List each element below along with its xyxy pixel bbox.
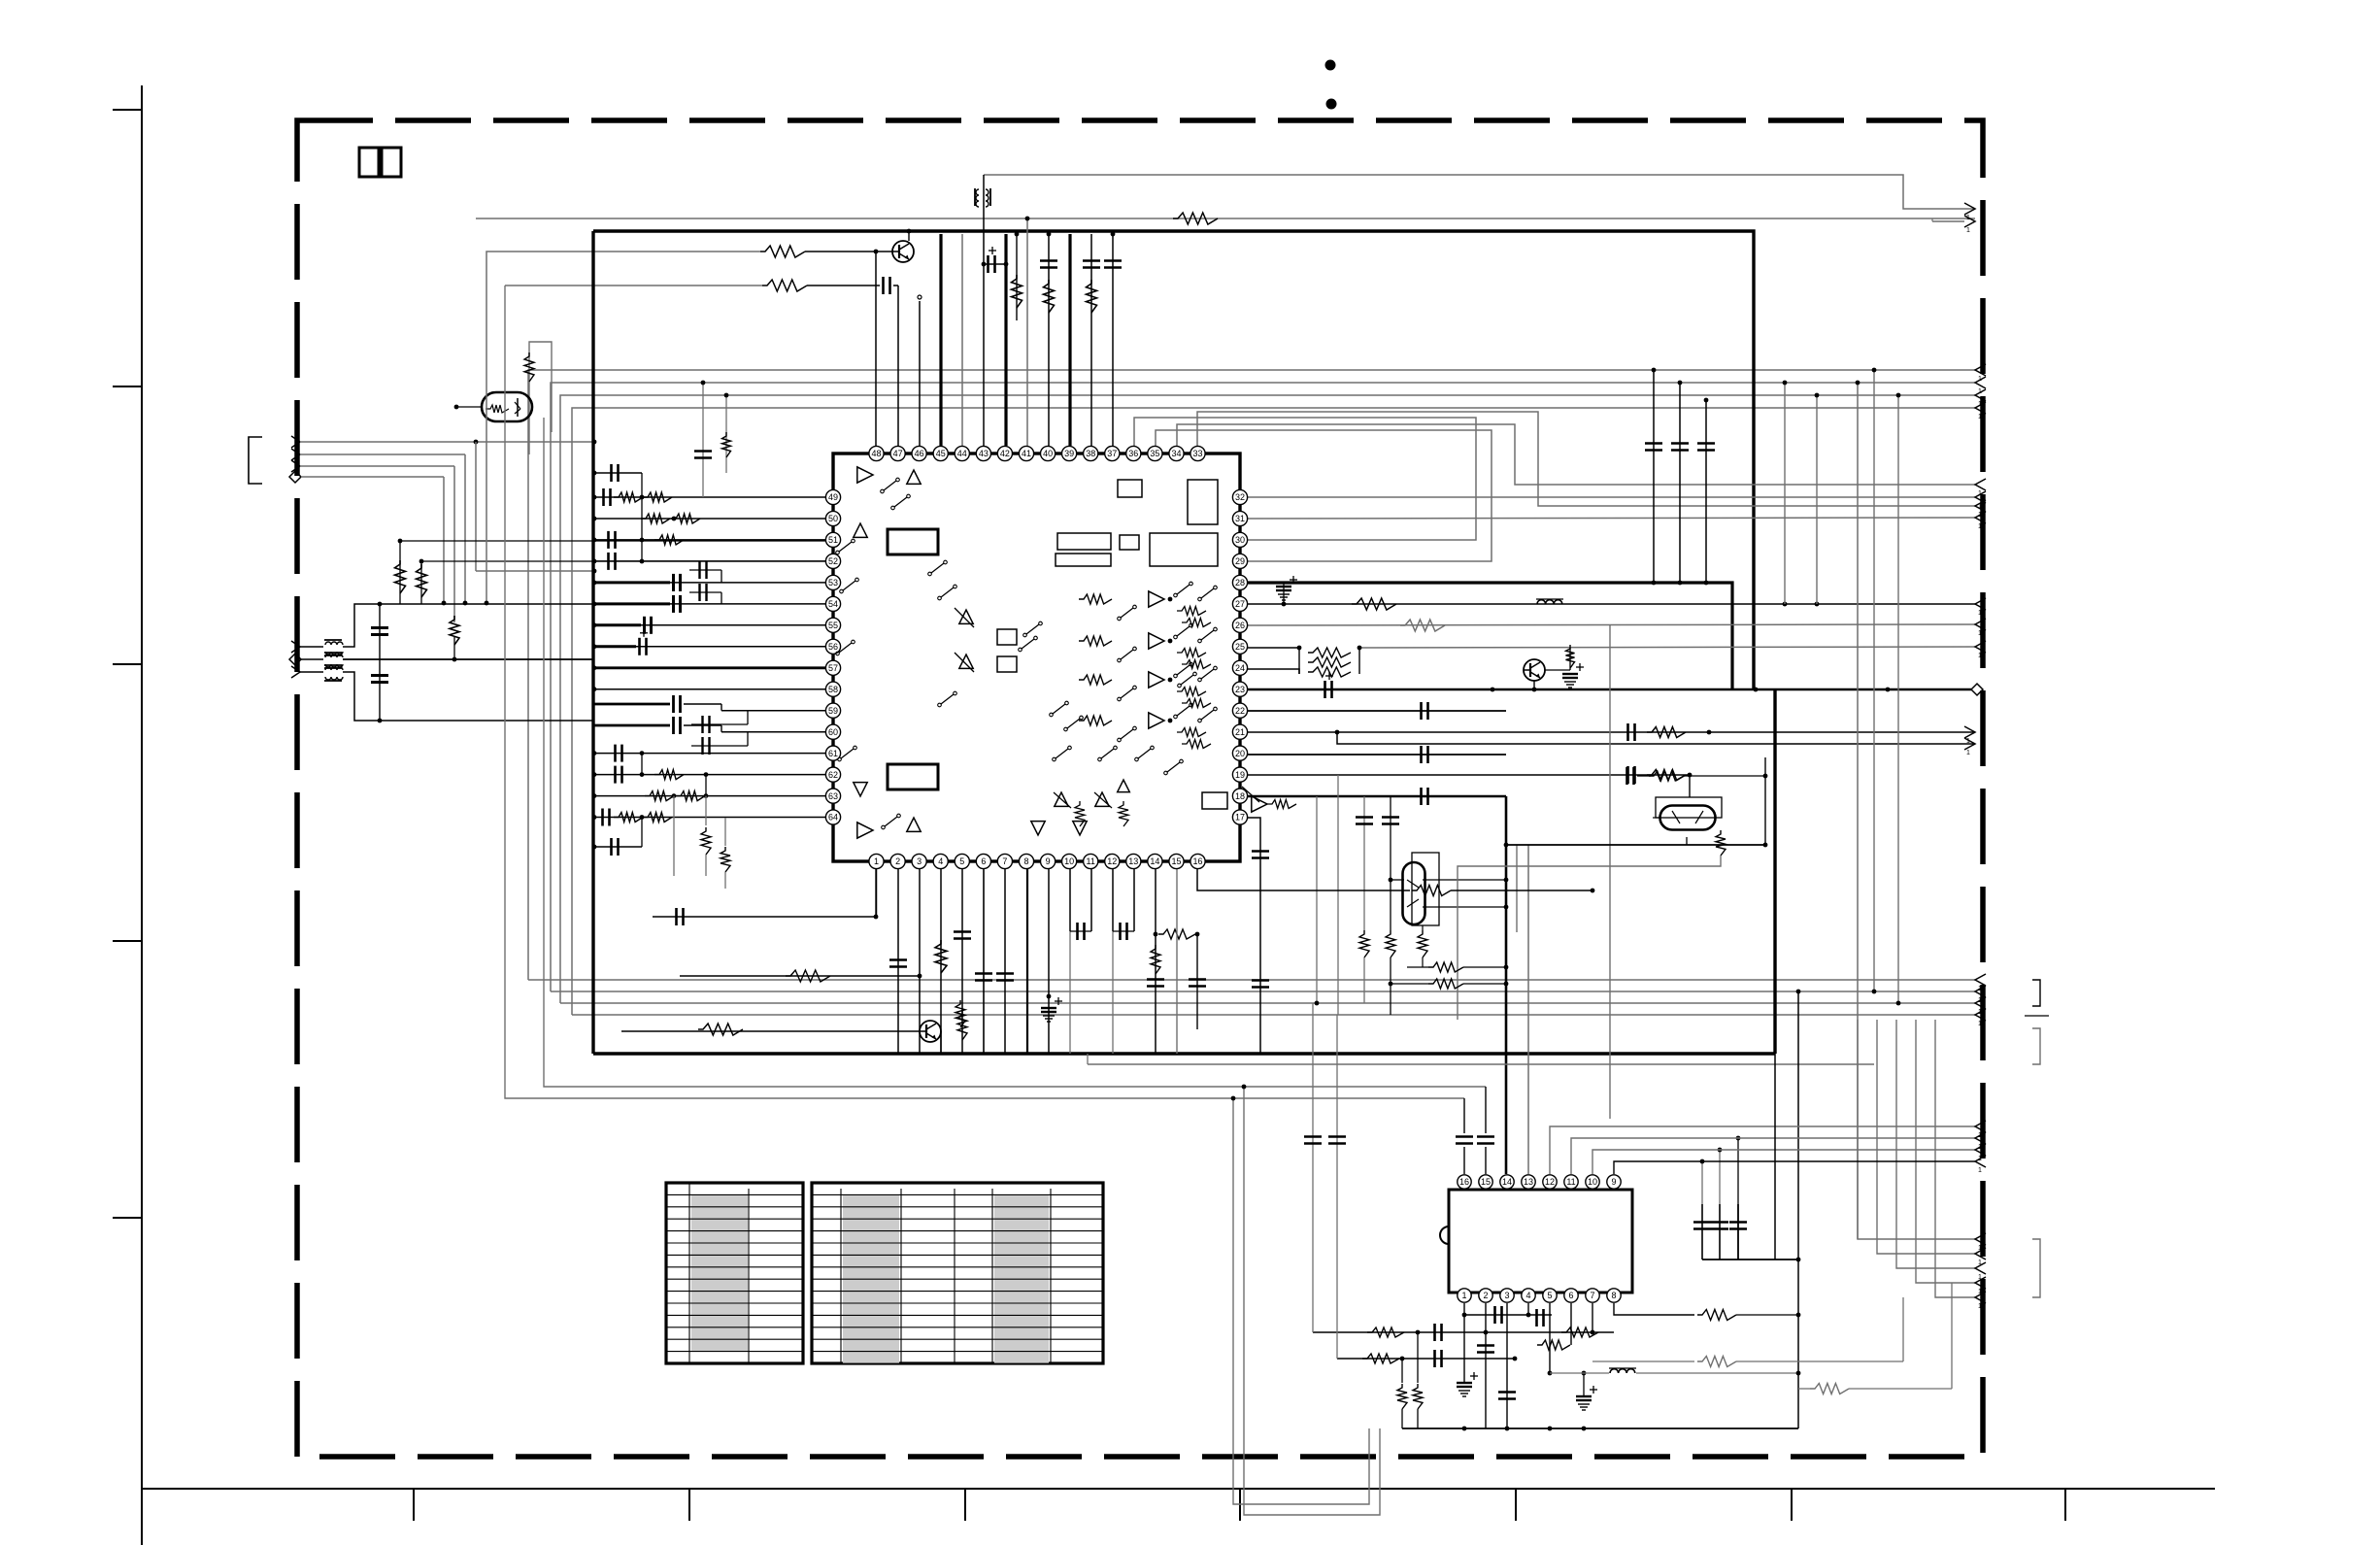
- svg-text:49: 49: [828, 492, 838, 502]
- resistor R-b5: [957, 1011, 967, 1040]
- adjustment table 1: [666, 1183, 803, 1363]
- wire stub pin56: [594, 646, 825, 648]
- capacitor C-b15: [1189, 978, 1206, 981]
- U1 vca pair 2: [959, 655, 973, 668]
- wire pin47 up: [897, 285, 899, 446]
- svg-text:13: 13: [1524, 1177, 1533, 1187]
- wire stub59 thick: [594, 703, 670, 706]
- capacitor C-in1: [379, 604, 381, 721]
- resistor R-u2j: [1561, 1327, 1598, 1337]
- wire u2 pin2 down: [1485, 1303, 1487, 1428]
- wire pin51 ext: [400, 540, 833, 542]
- svg-text:37: 37: [1107, 449, 1117, 458]
- wire pin20 out: [1248, 754, 1506, 756]
- wire u2 pin11 up: [1571, 1138, 1975, 1174]
- capacitor C-el-s56: [594, 645, 636, 648]
- svg-text:1: 1: [874, 856, 879, 866]
- svg-text:38: 38: [1086, 449, 1095, 458]
- capacitor C-s53b: [698, 561, 700, 579]
- U1 internal small box b: [997, 656, 1017, 672]
- svg-text:9: 9: [1046, 856, 1051, 866]
- wire pin35 nest: [1156, 430, 1492, 561]
- svg-text:52: 52: [828, 556, 838, 566]
- resistor R-u2b: [1362, 1354, 1399, 1363]
- connector J-left-1 chevrons: [291, 436, 300, 448]
- resistor R-s50a: [641, 514, 670, 523]
- svg-text:62: 62: [828, 770, 838, 780]
- U1 pin 61: [825, 746, 840, 760]
- connector arrow 26: [1975, 619, 1986, 630]
- resistor R-vq2: [1386, 930, 1395, 957]
- U1 pin 18: [1232, 789, 1247, 803]
- svg-text:14: 14: [1502, 1177, 1512, 1187]
- U1 pin 8: [1019, 854, 1033, 868]
- wire q6 in: [456, 406, 483, 408]
- wire trio bottom: [1702, 1259, 1798, 1260]
- wire nest top h2: [486, 252, 760, 603]
- wire u2 pin4 down: [1527, 1303, 1529, 1315]
- svg-text:5: 5: [959, 856, 964, 866]
- wire stub pin55: [594, 624, 825, 626]
- svg-text:55: 55: [828, 621, 838, 630]
- svg-text:26: 26: [1235, 621, 1245, 630]
- wire pin22 out: [1248, 710, 1506, 712]
- capacitor C-u2e: [1493, 1306, 1496, 1324]
- wire u2 pin5 down: [1549, 1303, 1551, 1373]
- svg-text:58: 58: [828, 685, 838, 694]
- U1 pin 11: [1084, 854, 1098, 868]
- svg-text:12: 12: [1545, 1177, 1555, 1187]
- U1 pin 29: [1232, 554, 1247, 568]
- capacitor C-tl1: [882, 277, 885, 294]
- wire riser1: [528, 370, 1975, 980]
- bus thick bottom: [593, 1052, 1775, 1055]
- U1 pin 36: [1126, 446, 1141, 460]
- U1 internal block 7: [1118, 480, 1142, 497]
- wire pin25 out: [1248, 647, 1299, 649]
- U1 pin 23: [1232, 682, 1247, 696]
- wire stub pin53: [594, 582, 825, 584]
- svg-text:19: 19: [1235, 770, 1245, 780]
- connector arrow br 4: [1975, 1277, 1986, 1289]
- U1 pin 9: [1041, 854, 1056, 868]
- U1 pin 49: [825, 489, 840, 504]
- U2 pin 9: [1607, 1175, 1621, 1189]
- svg-text:35: 35: [1150, 449, 1159, 458]
- wire stub low: [594, 846, 642, 848]
- svg-text:1: 1: [1978, 653, 1982, 659]
- wire in4: [301, 476, 444, 478]
- wire pin19 out: [1248, 774, 1690, 776]
- capacitor C-s54b: [698, 584, 700, 601]
- svg-text:1: 1: [1978, 1167, 1982, 1174]
- svg-text:1: 1: [1966, 750, 1970, 756]
- node marker dot B: [1326, 99, 1337, 110]
- wire pin14 down: [1155, 869, 1156, 1054]
- wire in1: [300, 441, 594, 443]
- wire pin24 out: [1248, 669, 1299, 674]
- U1 pin 64: [825, 810, 840, 824]
- resistor R-19: [1647, 770, 1686, 781]
- svg-text:15: 15: [1481, 1177, 1491, 1187]
- svg-text:21: 21: [1235, 727, 1245, 737]
- U1 pin 31: [1232, 511, 1247, 525]
- wire pin37 up: [1112, 234, 1114, 446]
- wire bottom bundle1: [528, 979, 1975, 981]
- resistor R-21: [1647, 727, 1686, 738]
- wire u2 pin9 up: [1614, 1161, 1975, 1174]
- resistor R-top: [1173, 213, 1218, 224]
- wire pin15 down: [1176, 869, 1178, 1054]
- connector arrow br 5: [1975, 1292, 1986, 1303]
- U1 pin 47: [890, 446, 905, 460]
- svg-text:13: 13: [1128, 856, 1138, 866]
- wire riser4: [572, 408, 1975, 1015]
- resistor R-b14v: [1151, 945, 1160, 974]
- U1 pin 56: [825, 639, 840, 654]
- svg-text:42: 42: [1000, 449, 1010, 458]
- U1 pin 60: [825, 724, 840, 739]
- wire right v1930: [1873, 370, 1875, 991]
- svg-text:46: 46: [915, 449, 924, 458]
- resistor R-b16: [1412, 886, 1451, 896]
- wire nest h3: [505, 285, 762, 286]
- U1 internal block 4: [1056, 554, 1111, 566]
- capacitor C-s61: [614, 745, 617, 762]
- wire stub pin63: [594, 795, 825, 797]
- wire u2 pin1 down: [1463, 1303, 1465, 1383]
- wire top out1: [984, 175, 1975, 209]
- svg-text:22: 22: [1235, 706, 1245, 716]
- U1 pin 15: [1169, 854, 1184, 868]
- resistor R-in2: [420, 561, 422, 604]
- wire pin27 out: [1248, 603, 1975, 605]
- resistor R-u2d: [1401, 1359, 1403, 1383]
- capacitor C-q4: [1626, 767, 1628, 785]
- wire pin41 up: [1026, 218, 1028, 446]
- transistor Q5: [920, 1021, 941, 1042]
- bus v1574: [1527, 845, 1529, 1174]
- resistor R-1047: [1016, 234, 1018, 320]
- transistor Q1: [892, 241, 914, 262]
- U1 pin 44: [955, 446, 969, 460]
- U1 pin 26: [1232, 618, 1247, 632]
- capacitor C-u2f: [1535, 1309, 1538, 1327]
- svg-text:50: 50: [828, 514, 838, 523]
- dual transistor package Q4 (horizontal oval): [1656, 797, 1722, 818]
- svg-text:64: 64: [828, 813, 838, 823]
- U1 pin 37: [1105, 446, 1120, 460]
- capacitor C-s52: [607, 553, 610, 570]
- wire stub55 thick: [594, 623, 641, 626]
- wire q3 base: [1391, 879, 1404, 881]
- U1 pin 16: [1190, 854, 1205, 868]
- U2 pin 7: [1586, 1289, 1599, 1302]
- capacitor C-vq1: [1363, 796, 1365, 930]
- svg-text:20: 20: [1235, 749, 1245, 758]
- U1 bottom logic cluster: [1031, 822, 1045, 835]
- resistor R-s63b: [676, 791, 705, 801]
- inductor L-27: [1537, 600, 1562, 604]
- U2 pin 15: [1479, 1175, 1492, 1189]
- U1 buffer bottom-left: [854, 783, 867, 796]
- wire stub pin50: [594, 518, 825, 520]
- U1 pin 50: [825, 511, 840, 525]
- capacitor trio C-t2: [1719, 1204, 1721, 1260]
- U1 pin 14: [1148, 854, 1162, 868]
- wire v1913: [1857, 383, 1859, 1239]
- svg-text:1: 1: [1978, 523, 1982, 530]
- svg-text:1: 1: [1978, 1021, 1982, 1027]
- op-amp / signal-processor IC U1 body: [833, 453, 1240, 861]
- U1 internal block 2: [888, 764, 938, 789]
- U1 pin 2: [890, 854, 905, 868]
- wire u2 pin6 down: [1570, 1303, 1572, 1345]
- U1 pin 63: [825, 789, 840, 803]
- wire pin3 down: [919, 869, 921, 1054]
- svg-text:31: 31: [1235, 514, 1245, 523]
- svg-text:9: 9: [1611, 1177, 1616, 1187]
- wire pin45 up thick: [939, 234, 942, 446]
- wire pin40 up: [1048, 234, 1050, 446]
- svg-text:18: 18: [1235, 791, 1245, 801]
- svg-text:57: 57: [828, 663, 838, 673]
- U1 pin 51: [825, 532, 840, 547]
- resistor R-tl1: [760, 246, 805, 257]
- wire topleft pair: [529, 342, 552, 454]
- wire row1372: [1313, 1331, 1614, 1333]
- transistor Q2: [1524, 659, 1545, 681]
- wire stub54 thick: [594, 602, 670, 605]
- wire riser3: [560, 395, 1975, 1003]
- resistor R-s49b: [643, 492, 672, 502]
- wire pin44 up: [961, 234, 963, 446]
- wire under-border U2: [1244, 1087, 1380, 1515]
- resistor R-in1: [399, 541, 401, 604]
- wire pin46 up: [919, 301, 921, 446]
- wire col694 low: [673, 796, 675, 876]
- wire stub pin64: [594, 817, 825, 819]
- wire r to cap: [807, 285, 880, 286]
- capacitor C-s724: [702, 383, 704, 497]
- wire pin33 nest: [1197, 412, 1975, 506]
- wire link v661c: [641, 818, 643, 848]
- wire q4 r down: [1458, 856, 1721, 1020]
- resistor R-q4: [1716, 830, 1726, 856]
- U2 pin 1: [1458, 1289, 1471, 1302]
- capacitor C-s49: [602, 488, 605, 506]
- wire u2 pin7 down: [1592, 1303, 1593, 1332]
- svg-text:8: 8: [1611, 1291, 1616, 1300]
- U1 internal small box a: [997, 629, 1017, 645]
- wire u2 pin3 down: [1506, 1303, 1508, 1428]
- wire link v661b: [641, 754, 643, 775]
- U1 internal block 8: [1188, 480, 1218, 524]
- wire desc 1352: [1312, 1003, 1314, 1146]
- resistor R-s64a: [614, 813, 643, 823]
- wire q5 base line: [621, 1030, 920, 1032]
- wire vert 1378b: [1337, 775, 1339, 1015]
- U1 pin 62: [825, 767, 840, 782]
- U1 pin 20: [1232, 746, 1247, 760]
- svg-text:7: 7: [1590, 1291, 1594, 1300]
- capacitor C-el6 gnd: [1576, 1395, 1592, 1397]
- capacitor C-u2a: [1433, 1324, 1436, 1341]
- bracket right 1061: [2032, 1028, 2040, 1064]
- capacitor C-r3: [1705, 400, 1707, 583]
- U1 pin 6: [976, 854, 990, 868]
- wire stub pin54: [594, 603, 825, 605]
- wire stub pin61: [594, 753, 825, 755]
- U2 pin 3: [1500, 1289, 1514, 1302]
- wire q6 vert: [455, 392, 457, 407]
- bracket right 1009: [2032, 980, 2040, 1006]
- U1 buffer left-mid: [854, 523, 867, 537]
- U1 pin 42: [997, 446, 1012, 460]
- wire stub pin51: [594, 539, 825, 541]
- resistor block R-25b: [1308, 657, 1351, 667]
- svg-text:7: 7: [1002, 856, 1007, 866]
- capacitor C-vq2: [1390, 796, 1391, 930]
- wire v1818: [1764, 757, 1766, 845]
- wire vert 1356: [1316, 796, 1318, 1003]
- capacitor C-el4 gnd: [1041, 1007, 1056, 1009]
- svg-text:63: 63: [828, 791, 838, 801]
- svg-text:3: 3: [917, 856, 922, 866]
- connector arrows right top bundle: [1975, 364, 1986, 376]
- resistor R-u2a: [1367, 1327, 1404, 1337]
- wire stub pin62: [594, 774, 825, 776]
- wire cap to pin47col: [893, 285, 898, 286]
- wire pin21 out: [1248, 731, 1975, 733]
- svg-text:6: 6: [1568, 1291, 1573, 1300]
- adjustment table 2: [812, 1183, 1103, 1363]
- U1 pin 34: [1169, 446, 1184, 460]
- svg-text:45: 45: [936, 449, 946, 458]
- U1 pin 46: [912, 446, 926, 460]
- capacitor C-el3: [1324, 681, 1326, 698]
- U1 vca pair 1: [959, 610, 973, 623]
- U1 pin 25: [1232, 639, 1247, 654]
- svg-text:1: 1: [1978, 414, 1982, 420]
- U1 pin 40: [1041, 446, 1056, 460]
- svg-text:48: 48: [871, 449, 881, 458]
- U1 pin 59: [825, 703, 840, 718]
- resistor R-u2e: [1537, 1340, 1570, 1350]
- bus v1551: [1505, 796, 1508, 1174]
- U2 pin 12: [1543, 1175, 1557, 1189]
- U1 pin 43: [976, 446, 990, 460]
- U1 pin 22: [1232, 703, 1247, 718]
- capacitor C-s487: [610, 464, 613, 482]
- wire pin16 down: [1197, 869, 1410, 890]
- wire pin39 up thick: [1068, 234, 1071, 446]
- bus thick right lower: [1773, 689, 1776, 1054]
- resistor R-vq3: [1422, 967, 1424, 980]
- connector arrow 766: [1964, 738, 1975, 750]
- capacitor C-s62: [614, 766, 617, 784]
- connector arrow out1: [1964, 203, 1975, 215]
- svg-text:1: 1: [1966, 227, 1970, 234]
- wire under-border U1: [1233, 1098, 1369, 1504]
- resistor R-tlv: [524, 353, 534, 382]
- capacitor C-s51: [607, 531, 610, 549]
- bus v1562: [1516, 845, 1518, 932]
- wire pin13 down: [1133, 869, 1135, 931]
- U1 pin 27: [1232, 596, 1247, 611]
- capacitor C-s59b: [701, 716, 703, 733]
- capacitor C-u2b: [1433, 1350, 1436, 1367]
- wire pin31 out: [1248, 518, 1975, 519]
- wire u2 pin16 up: [1463, 1147, 1465, 1174]
- wire pin38 up: [1090, 234, 1092, 446]
- wire pin48 up: [875, 252, 877, 446]
- resistor R-u2c: [1417, 1332, 1419, 1383]
- U1 internal block 5: [1120, 535, 1139, 550]
- connector arrow 27: [1975, 598, 1986, 610]
- wire v1658: [1609, 625, 1611, 1119]
- connector arrows right mid-low bundle: [1975, 974, 1986, 986]
- gnd g-q2: [1562, 673, 1578, 675]
- svg-text:34: 34: [1171, 449, 1181, 458]
- resistor R-s50b: [671, 514, 700, 523]
- wire hresistors: [1428, 962, 1463, 972]
- wire hresistors2: [1428, 979, 1463, 989]
- svg-text:41: 41: [1022, 449, 1031, 458]
- connector arrow 25: [1975, 641, 1986, 653]
- resistor R-s747: [724, 818, 726, 846]
- U1 internal block 1: [888, 529, 938, 554]
- wire gray 1096: [1088, 1063, 1874, 1065]
- capacitor C-b10: [1076, 923, 1079, 940]
- U1 pin 10: [1062, 854, 1077, 868]
- bracket left group1: [249, 437, 262, 484]
- title label box 1: [359, 148, 379, 177]
- wire pin43 up + ferrite: [983, 175, 985, 446]
- svg-text:39: 39: [1064, 449, 1074, 458]
- wire stub pin58: [594, 689, 825, 690]
- wire row1354: [1465, 1314, 1552, 1316]
- svg-text:60: 60: [828, 727, 838, 737]
- U1 pin 39: [1062, 446, 1077, 460]
- svg-text:36: 36: [1128, 449, 1138, 458]
- svg-text:53: 53: [828, 578, 838, 588]
- U1 pin 48: [869, 446, 884, 460]
- wire br conn 2: [1877, 1020, 1975, 1254]
- capacitor C-r1: [1653, 370, 1655, 583]
- wire q1 collector: [908, 231, 910, 241]
- resistor R-s63a: [645, 791, 674, 801]
- svg-text:27: 27: [1235, 599, 1245, 609]
- wire in2: [300, 453, 465, 455]
- wire br conn 4: [1916, 1020, 1975, 1283]
- U1 pin 58: [825, 682, 840, 696]
- svg-text:3: 3: [1504, 1291, 1509, 1300]
- U1 pin 1: [869, 854, 884, 868]
- U2 pin 6: [1564, 1289, 1578, 1302]
- resistor R-s64b: [643, 813, 672, 823]
- resistor R-q5b: [955, 1000, 965, 1027]
- wire pin23 thick out: [1248, 689, 1971, 691]
- connector J-left-2: [291, 641, 300, 653]
- wire pin9 down: [1048, 869, 1050, 1054]
- U1 pin 57: [825, 660, 840, 675]
- wire t2 out: [343, 658, 594, 660]
- U1 pin 21: [1232, 724, 1247, 739]
- inductor L-u2: [1610, 1369, 1635, 1373]
- U1 internal block 3: [1057, 533, 1111, 550]
- wire nest h4 long bottom: [572, 1014, 1975, 1016]
